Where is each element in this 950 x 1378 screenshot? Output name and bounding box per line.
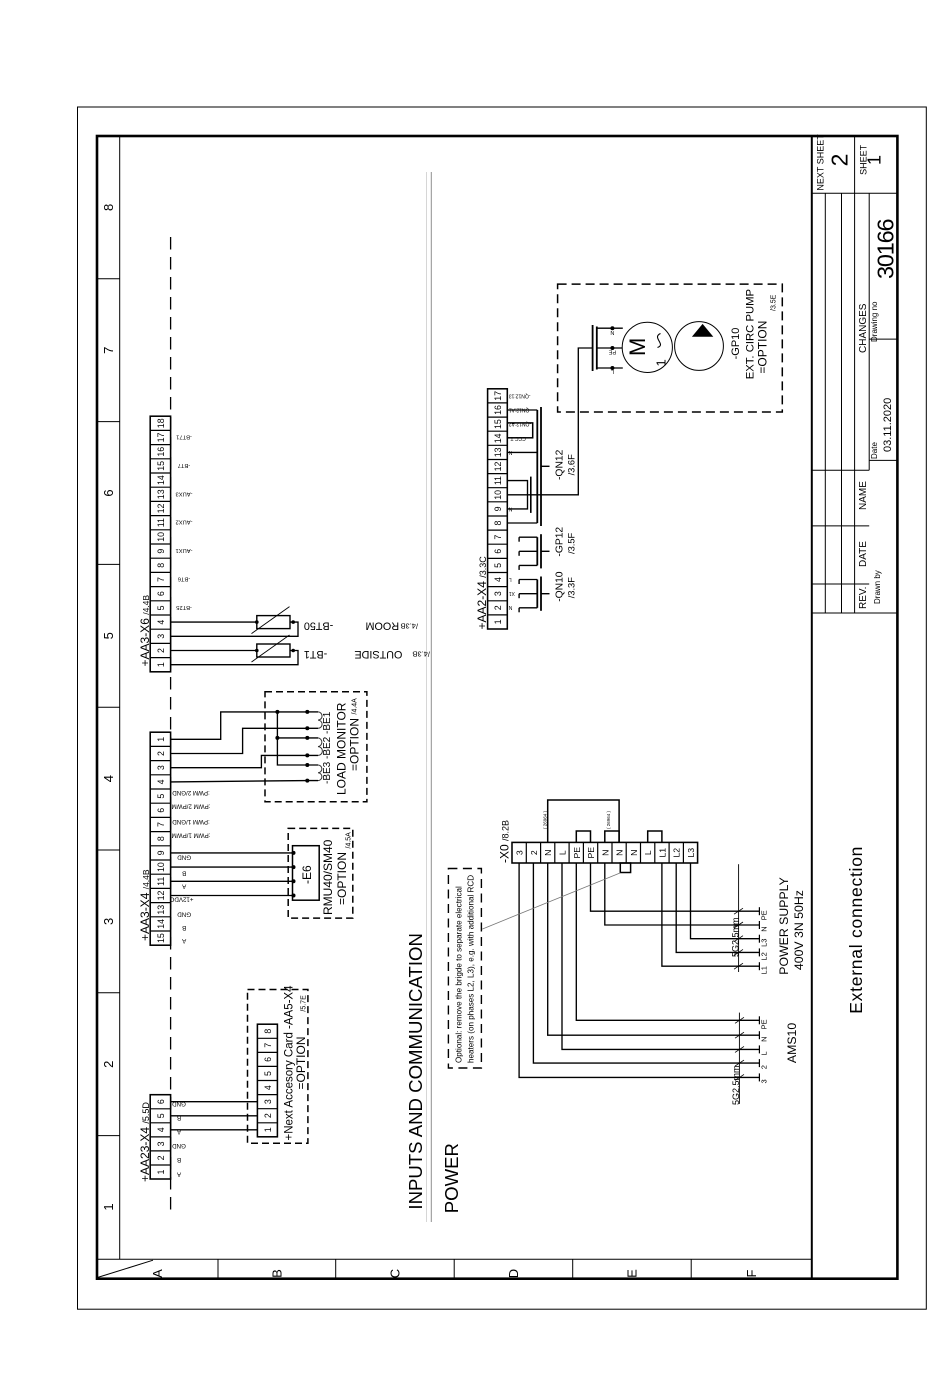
svg-text:7: 7 (493, 535, 503, 540)
svg-text:4: 4 (156, 779, 166, 784)
svg-text:9: 9 (493, 506, 503, 511)
svg-text:Drawing no: Drawing no (870, 301, 879, 342)
svg-text:1: 1 (493, 619, 503, 624)
optional note text (455, 875, 476, 1063)
wire X6:4 to BT50 (171, 621, 257, 623)
svg-text:14: 14 (156, 475, 166, 485)
svg-text:DATE: DATE (858, 541, 869, 567)
svg-text:-BT6: -BT6 (178, 576, 191, 582)
svg-text:-BT1: -BT1 (304, 648, 327, 660)
optional note dashed box (448, 869, 481, 1069)
svg-text:-AUX3: -AUX3 (175, 490, 192, 496)
svg-text:1: 1 (101, 1203, 116, 1210)
wire AA23 to AA5 (171, 1129, 258, 1131)
svg-text:B: B (269, 1269, 284, 1278)
svg-text:N: N (600, 850, 610, 856)
svg-text:CHANGES: CHANGES (858, 303, 869, 353)
dot at E6 (292, 865, 296, 869)
svg-text:POWER SUPPLY: POWER SUPPLY (777, 877, 791, 975)
svg-text:8: 8 (263, 1029, 273, 1034)
svg-text:N: N (760, 926, 769, 931)
svg-text:15: 15 (156, 461, 166, 471)
svg-text:-BT25: -BT25 (176, 604, 192, 610)
dot at E6 (292, 879, 296, 883)
leader line (482, 873, 620, 929)
CT terminal dot (305, 753, 309, 757)
wire X4:4 to BE3 return (171, 781, 318, 782)
svg-text:-QN10: -QN10 (555, 571, 566, 602)
svg-text:L3: L3 (760, 939, 769, 947)
svg-text:External connection: External connection (846, 846, 866, 1014)
svg-text:( 26964 ): ( 26964 ) (543, 810, 548, 829)
AMS10 wire (562, 863, 759, 1049)
svg-text:L1: L1 (760, 966, 769, 974)
wire AA2:13 to QN12 (507, 451, 537, 453)
svg-text:D: D (506, 1269, 521, 1278)
bridge L-L1 (648, 831, 662, 842)
svg-text:2: 2 (493, 605, 503, 610)
svg-text:GND: GND (177, 854, 191, 861)
svg-text:1: 1 (263, 1127, 273, 1132)
AA3-X4 pin function labels (169, 789, 210, 944)
svg-text:9: 9 (156, 549, 166, 554)
CT terminal dot (305, 736, 309, 740)
wire X4:2 to BE1 return (171, 728, 308, 753)
svg-text:13: 13 (156, 489, 166, 499)
wire X4 to E6 (171, 895, 293, 897)
svg-text:3: 3 (760, 1079, 769, 1083)
svg-text:A: A (150, 1269, 165, 1278)
svg-text:12: 12 (156, 504, 166, 514)
dot at E6 (292, 894, 296, 898)
dot at E6 (292, 851, 296, 855)
bridge N-N (26964) (548, 800, 619, 842)
svg-text:18: 18 (156, 418, 166, 428)
plug -GP12 (519, 534, 549, 570)
power supply wire (691, 863, 760, 939)
svg-text:1: 1 (156, 737, 166, 742)
svg-text:15: 15 (156, 933, 166, 943)
load monitor labels (322, 698, 362, 795)
svg-text:11: 11 (156, 518, 166, 527)
svg-text:/3.5F: /3.5F (567, 532, 577, 554)
svg-text:PE: PE (608, 349, 616, 355)
svg-text:7: 7 (101, 347, 116, 354)
bridge box pins 14-15 (507, 423, 532, 438)
svg-text:2: 2 (156, 648, 166, 653)
svg-text:N: N (760, 1036, 769, 1041)
svg-text:5: 5 (156, 605, 166, 610)
connector +AA23-X4 terminal strip (150, 1095, 170, 1179)
connector +AA3-X4 terminal strip (150, 732, 170, 945)
connector -AA5-X4 terminal strip (257, 1024, 277, 1137)
svg-text:L3: L3 (686, 848, 696, 858)
cabinet boundary dashed line (170, 237, 172, 1210)
AMS10 wire (519, 863, 759, 1077)
svg-text:/3.3F: /3.3F (567, 577, 577, 599)
svg-text:B: B (182, 869, 186, 876)
svg-text:5G2.5mm: 5G2.5mm (730, 917, 740, 957)
svg-text:17: 17 (493, 391, 503, 401)
svg-text:13: 13 (493, 447, 503, 457)
CT terminal dot (305, 779, 309, 783)
junction dot BT50 left (255, 620, 259, 624)
AMS10 wire (548, 863, 760, 1035)
junction dot BT50 right (291, 620, 295, 624)
svg-text:-BT7: -BT7 (178, 462, 191, 468)
wire AA2:8 to QN12 (507, 522, 537, 524)
svg-text:L: L (509, 576, 512, 582)
CT coil -BE1 (318, 712, 322, 728)
svg-text:4: 4 (156, 620, 166, 625)
thermistor -BT1 (outside sensor) (252, 635, 291, 662)
svg-text:4: 4 (101, 775, 116, 782)
svg-text:heaters (on phases L2, L3), e.: heaters (on phases L2, L3), e.g. with ad… (467, 875, 476, 1063)
grid reference labels (101, 204, 759, 1278)
svg-text:N: N (610, 329, 614, 335)
AMS10 wire (576, 863, 759, 1020)
svg-text:6: 6 (156, 591, 166, 596)
svg-text:/3.6F: /3.6F (567, 454, 577, 476)
svg-text:1: 1 (156, 662, 166, 667)
svg-text:N: N (543, 850, 553, 856)
svg-text:15: 15 (493, 419, 503, 429)
wire X6:2 to BT1 (171, 650, 257, 652)
pump symbol (675, 322, 724, 371)
svg-text:GND: GND (172, 1142, 186, 1149)
svg-text:16: 16 (493, 405, 503, 415)
wire X4:1 to BE1 (171, 712, 308, 739)
power supply wire (662, 863, 760, 966)
svg-text:8: 8 (156, 836, 166, 841)
svg-text:POWER: POWER (441, 1143, 462, 1213)
svg-text:2: 2 (529, 850, 539, 855)
next accessory dashed option box (248, 990, 308, 1144)
svg-text:14: 14 (156, 919, 166, 929)
svg-text:9: 9 (156, 850, 166, 855)
svg-text:8: 8 (493, 520, 503, 525)
svg-text::PWM 2/PWM: :PWM 2/PWM (172, 803, 211, 810)
svg-text:4: 4 (493, 577, 503, 582)
svg-text:LOAD MONITOR: LOAD MONITOR (335, 702, 349, 795)
svg-text:X1: X1 (509, 590, 515, 596)
svg-text:E: E (624, 1269, 639, 1278)
label -GP12 /3.5F (555, 527, 577, 557)
connector +AA3-X6 terminal strip (150, 416, 170, 672)
svg-text:5G2.5mm: 5G2.5mm (731, 1065, 741, 1105)
svg-text:L2: L2 (672, 848, 682, 858)
junction dot BT1 right (291, 649, 295, 653)
svg-text:400V 3N 50Hz: 400V 3N 50Hz (792, 890, 806, 970)
bridge PE-PE (576, 831, 590, 842)
cable symbol 5G2.5mm AMS10 (738, 1013, 740, 1104)
power supply wire (605, 863, 760, 925)
AA3-X6 pin function labels (175, 434, 192, 610)
svg-text:2: 2 (760, 1065, 769, 1069)
svg-text:L2: L2 (760, 952, 769, 960)
svg-text:1: 1 (654, 359, 669, 366)
svg-text:8: 8 (156, 563, 166, 568)
svg-text:7: 7 (263, 1043, 273, 1048)
svg-text:3: 3 (156, 765, 166, 770)
dot N (610, 326, 614, 330)
svg-text:-BE3 -BE2 -BE1: -BE3 -BE2 -BE1 (322, 711, 333, 784)
svg-text:2: 2 (263, 1113, 273, 1118)
svg-text:=OPTION: =OPTION (335, 852, 349, 905)
accessory unit -E6 (293, 846, 320, 901)
svg-text:-BT50: -BT50 (304, 620, 333, 632)
dot L (610, 366, 614, 370)
svg-text:03.11.2020: 03.11.2020 (882, 398, 894, 452)
svg-text:2: 2 (101, 1061, 116, 1068)
common link wire (277, 712, 318, 765)
svg-text:+12VDC: +12VDC (169, 896, 193, 903)
svg-text:C: C (387, 1269, 402, 1278)
svg-text:7: 7 (156, 822, 166, 827)
junction dot BT1 left (255, 649, 259, 653)
svg-text:F: F (744, 1269, 759, 1277)
title block (812, 136, 898, 1279)
wire X4 to E6 (171, 852, 293, 854)
svg-text:ROOM: ROOM (366, 620, 400, 632)
wire AA2:10 to pump (PE) (507, 348, 592, 495)
svg-text:6: 6 (493, 549, 503, 554)
svg-text:+AA23-X4 /5.5D: +AA23-X4 /5.5D (138, 1102, 152, 1182)
AA2-X4 tiny pin labels (508, 392, 531, 610)
terminal block -X0 (512, 842, 698, 863)
svg-text:N: N (615, 850, 625, 856)
svg-text:11: 11 (493, 476, 503, 485)
svg-text:3: 3 (515, 850, 525, 855)
svg-text:/5.7E: /5.7E (301, 995, 308, 1012)
drawing frame (78, 107, 927, 1309)
bridge labels (26964) (543, 810, 612, 829)
svg-text:5: 5 (263, 1071, 273, 1076)
svg-text:13: 13 (156, 905, 166, 915)
BE2 feed from common (277, 737, 318, 739)
pump wire labels (608, 329, 616, 374)
svg-text:3: 3 (263, 1099, 273, 1104)
CT coil -BE3 (318, 765, 322, 781)
svg-text:L: L (643, 850, 653, 855)
svg-text:/4.3B: /4.3B (412, 650, 430, 659)
svg-text:12: 12 (493, 462, 503, 472)
load monitor dashed option box (265, 692, 367, 802)
svg-text:AMS10: AMS10 (785, 1023, 799, 1063)
label -BT1 OUTSIDE /4.3B (304, 648, 430, 660)
svg-text:+AA3-X6 /4.4B: +AA3-X6 /4.4B (138, 595, 152, 667)
svg-text:/4.3B: /4.3B (401, 621, 419, 630)
svg-text:RMU40/SM40: RMU40/SM40 (321, 839, 335, 915)
svg-text:5: 5 (156, 1113, 166, 1118)
svg-text::PWM 1/GND: :PWM 1/GND (172, 818, 210, 825)
svg-text:=OPTION: =OPTION (756, 321, 770, 374)
svg-text:-GP12: -GP12 (555, 527, 566, 557)
title block text (816, 134, 899, 1014)
svg-text:L: L (558, 850, 568, 855)
svg-text:N: N (508, 604, 512, 610)
motor M 1~ symbol (622, 322, 672, 372)
label -QN12 /3.6F (555, 449, 577, 480)
svg-text:12: 12 (156, 891, 166, 901)
CT terminal dot (305, 710, 309, 714)
svg-text:2: 2 (827, 154, 853, 167)
svg-text:5: 5 (493, 563, 503, 568)
wire X4 to E6 (171, 866, 293, 868)
svg-text:-X0 /8.2B: -X0 /8.2B (498, 820, 512, 863)
ext circ pump dashed option box (558, 284, 783, 412)
svg-text:L: L (760, 1051, 769, 1055)
svg-text:7: 7 (156, 577, 166, 582)
RMU40/SM40 labels (321, 832, 353, 915)
svg-text:10: 10 (156, 532, 166, 542)
svg-text:=OPTION: =OPTION (348, 718, 362, 771)
pump plug bars (592, 325, 594, 371)
dot PE (610, 346, 614, 350)
svg-text:-QN12: -QN12 (555, 449, 566, 480)
svg-text:4: 4 (156, 1127, 166, 1132)
svg-text:NEXT SHEET: NEXT SHEET (816, 134, 826, 191)
CT terminal dot (305, 763, 309, 767)
svg-text:-AUX2: -AUX2 (175, 519, 192, 525)
svg-text:3: 3 (156, 634, 166, 639)
svg-text:14: 14 (493, 433, 503, 443)
wire AA2:16 to QN12 (507, 409, 537, 411)
svg-text:PE: PE (586, 847, 596, 859)
svg-text:GND: GND (177, 911, 191, 918)
svg-text:3: 3 (156, 1141, 166, 1146)
svg-text:5: 5 (156, 794, 166, 799)
svg-text:6: 6 (101, 489, 116, 496)
svg-text:10: 10 (493, 490, 503, 500)
contactor -QN12 bars (536, 410, 538, 523)
label -QN10 /3.3F (555, 571, 577, 602)
svg-text:10: 10 (156, 862, 166, 872)
pump labels (730, 289, 778, 379)
svg-text:+AA2-X4 /3.3C: +AA2-X4 /3.3C (475, 556, 489, 630)
pump wires N PE L (597, 327, 623, 329)
junction common/BE2 (275, 736, 279, 740)
svg-text:1: 1 (156, 1169, 166, 1174)
svg-text:PE: PE (760, 1019, 769, 1029)
wire X4:3 to BE2 return (171, 755, 318, 767)
svg-text:N: N (629, 850, 639, 856)
CT coil -BE2 (318, 738, 322, 756)
svg-text:PE: PE (760, 910, 769, 920)
svg-text:3: 3 (101, 918, 116, 925)
svg-text:=OPTION: =OPTION (294, 1036, 308, 1089)
removable bridge below N-N (620, 863, 630, 873)
svg-text:+AA3-X4 /4.4B: +AA3-X4 /4.4B (138, 869, 152, 941)
svg-text:( 26964 ): ( 26964 ) (606, 810, 611, 829)
label -BT50 ROOM /4.3B (304, 620, 418, 632)
svg-text:REV.: REV. (858, 587, 869, 609)
svg-text:-GP10: -GP10 (730, 328, 742, 360)
svg-text:2: 2 (156, 1155, 166, 1160)
svg-text:OUTSIDE: OUTSIDE (354, 648, 402, 660)
svg-text:L1: L1 (657, 848, 667, 858)
RMU40/SM40 dashed option box (288, 828, 353, 918)
power supply wire (676, 863, 759, 952)
svg-text:L: L (611, 368, 614, 374)
plug -QN10 (519, 577, 549, 613)
svg-text:3: 3 (493, 591, 503, 596)
svg-text:-E6: -E6 (300, 865, 314, 884)
AA23-X4 pin labels (172, 1100, 186, 1177)
svg-text:2: 2 (156, 751, 166, 756)
junction common/BE1 (275, 710, 279, 714)
svg-text:16: 16 (156, 447, 166, 457)
AMS10 wire (533, 863, 759, 1063)
svg-text:-BT71: -BT71 (176, 434, 192, 440)
power supply wire labels (760, 910, 769, 974)
svg-text:INPUTS AND COMMUNICATION: INPUTS AND COMMUNICATION (405, 933, 426, 1210)
wire AA23 to AA5 (171, 1101, 258, 1103)
svg-text:/4.5A: /4.5A (346, 832, 353, 849)
svg-text:Drawn by: Drawn by (873, 570, 882, 604)
svg-text::PWM 2/GND: :PWM 2/GND (172, 789, 210, 796)
svg-text:/3.5E: /3.5E (771, 294, 778, 311)
svg-text::PWM 1/PWM: :PWM 1/PWM (172, 832, 211, 839)
svg-text:6: 6 (263, 1057, 273, 1062)
svg-text:NAME: NAME (858, 481, 869, 510)
section divider line (425, 172, 427, 1222)
svg-text:PE: PE (572, 847, 582, 859)
wire X6:1 to BT1 return (171, 651, 298, 665)
svg-text:Optional: remove the brigde to: Optional: remove the brigde to separate … (455, 886, 464, 1063)
svg-text:11: 11 (156, 877, 166, 886)
svg-text:4: 4 (263, 1085, 273, 1090)
svg-text:8: 8 (101, 204, 116, 211)
cable symbol 5G2.5mm power supply (738, 864, 740, 972)
thermistor -BT50 (room sensor) (252, 607, 291, 634)
svg-text:-QN12:13: -QN12:13 (509, 392, 531, 398)
svg-text:30166: 30166 (873, 219, 899, 279)
wire AA23 to AA5 (171, 1115, 258, 1117)
bridge N-N small (605, 831, 619, 842)
next accessory card labels (284, 985, 309, 1141)
svg-text:/4.4A: /4.4A (352, 698, 359, 715)
svg-text:6: 6 (156, 1099, 166, 1104)
svg-text:B: B (177, 1156, 181, 1163)
svg-text:-AUX1: -AUX1 (175, 547, 192, 553)
svg-text:M: M (625, 338, 650, 356)
jumper pins 9-11 (507, 481, 527, 509)
svg-text:6: 6 (156, 808, 166, 813)
svg-text:1: 1 (865, 155, 885, 165)
power supply wire (591, 863, 760, 911)
connector +AA2-X4 terminal strip (488, 389, 508, 629)
label POWER SUPPLY 400V 3N 50Hz (777, 877, 806, 975)
svg-text:Date: Date (870, 442, 879, 459)
AMS10 wire labels (760, 1019, 769, 1083)
wire X6:3 to BT50 return (171, 622, 298, 636)
svg-text:B: B (182, 924, 186, 931)
svg-text:17: 17 (156, 433, 166, 443)
svg-text:5: 5 (101, 632, 116, 639)
wire X4 to E6 (171, 880, 293, 882)
CT terminal dot (305, 726, 309, 730)
